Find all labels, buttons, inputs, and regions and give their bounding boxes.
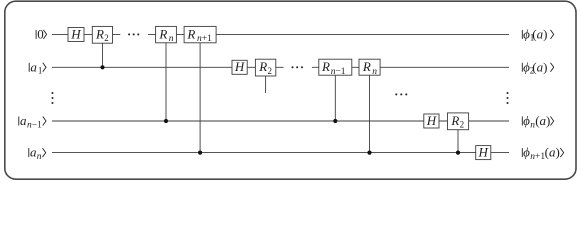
control dot q5 x458 xyxy=(456,151,460,155)
svg-text:n: n xyxy=(169,34,174,44)
row2 ellipsis xyxy=(291,66,303,68)
gate H row5 xyxy=(476,145,491,160)
svg-text:n: n xyxy=(37,152,42,162)
gate H row2 xyxy=(232,59,247,74)
ket |phin+1(a)> output q5 xyxy=(522,145,563,162)
vertical control wire R2 row2 dangling xyxy=(265,75,267,93)
svg-text:2: 2 xyxy=(460,120,465,130)
wire q4 xyxy=(52,120,509,122)
wire q5 xyxy=(52,152,509,154)
gate R2 row2 xyxy=(255,59,275,76)
gate H row1 xyxy=(68,26,84,41)
svg-text:n+1: n+1 xyxy=(530,152,545,162)
svg-text:R: R xyxy=(321,59,330,74)
svg-text:H: H xyxy=(478,145,489,160)
svg-text:(a): (a) xyxy=(535,113,550,128)
svg-text:n+1: n+1 xyxy=(197,34,212,44)
svg-text:n−1: n−1 xyxy=(27,120,42,130)
vertical control wire Rn-1 row2 to q4 xyxy=(334,75,336,121)
vertical dots row3 right xyxy=(506,92,508,104)
gate Rn+1 row1 xyxy=(184,26,216,44)
svg-text:a: a xyxy=(30,59,37,74)
svg-text:0: 0 xyxy=(37,27,44,42)
wire q2 segment b xyxy=(312,66,509,68)
gate R2 row1 xyxy=(92,26,112,43)
svg-text:(a): (a) xyxy=(545,145,560,160)
vertical control wire Rn row1 to q4 xyxy=(165,43,167,122)
gate Rn row1 xyxy=(156,26,177,44)
svg-text:H: H xyxy=(426,113,437,128)
svg-text:2: 2 xyxy=(268,66,273,76)
svg-text:ϕ: ϕ xyxy=(523,113,530,128)
svg-text:ϕ: ϕ xyxy=(523,145,530,160)
svg-text:(a): (a) xyxy=(532,27,547,42)
frame border xyxy=(5,1,576,179)
svg-text:2: 2 xyxy=(104,33,109,43)
svg-text:n−1: n−1 xyxy=(331,67,346,77)
gate Rn row2 xyxy=(359,59,380,77)
control dot q5 x369 xyxy=(367,151,371,155)
wire q1 segment b xyxy=(148,33,509,35)
gate Rn-1 row2 xyxy=(319,59,352,77)
svg-text:H: H xyxy=(234,59,245,74)
svg-text:R: R xyxy=(95,26,104,41)
vertical control wire R2 row1 to q2 xyxy=(102,43,104,67)
svg-text:(a): (a) xyxy=(532,59,547,74)
control dot q4 x335 xyxy=(333,119,337,123)
ket |phi1(a)> output q1 xyxy=(522,27,553,43)
gate R2 row4 xyxy=(448,113,469,130)
mid ellipsis row3 xyxy=(395,93,407,95)
ket |a1> input q2 xyxy=(29,59,46,75)
ket |phin(a)> output q4 xyxy=(522,113,553,130)
ket |0> input q1 xyxy=(36,27,47,42)
svg-text:1: 1 xyxy=(38,66,43,76)
svg-text:a: a xyxy=(20,113,27,128)
ket |an> input q5 xyxy=(29,145,46,162)
ket |an-1> input q4 xyxy=(19,113,46,130)
svg-text:R: R xyxy=(186,26,195,41)
svg-text:R: R xyxy=(158,26,167,41)
vertical control wire Rn+1 row1 to q5 xyxy=(199,43,201,153)
control dot q5 x200 xyxy=(198,151,202,155)
control dot q4 x166 xyxy=(164,119,168,123)
control dot q2 xyxy=(100,65,104,69)
svg-text:R: R xyxy=(362,59,371,74)
wire q1 segment a xyxy=(52,33,120,35)
svg-text:R: R xyxy=(258,59,267,74)
vertical dots row3 left xyxy=(51,92,53,104)
svg-text:n: n xyxy=(372,67,377,77)
wire q2 segment a xyxy=(52,66,284,68)
vertical control wire Rn row2 to q5 xyxy=(369,75,371,153)
ket |phi2(a)> output q2 xyxy=(522,59,553,75)
svg-text:R: R xyxy=(450,113,459,128)
row1 ellipsis xyxy=(128,33,139,35)
vertical control wire R2 row4 to q5 xyxy=(457,130,459,153)
svg-text:H: H xyxy=(70,26,81,41)
gate H row4 xyxy=(424,113,439,128)
